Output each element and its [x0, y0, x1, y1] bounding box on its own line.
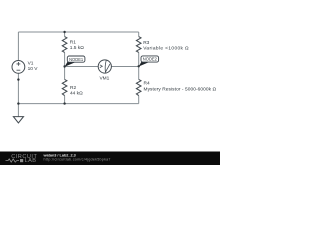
junction R1 top rail: [63, 31, 65, 33]
voltmeter VM1: [98, 60, 111, 73]
svg-text:V1: V1: [28, 60, 34, 66]
wire middle branch R1 top stub: [64, 32, 66, 37]
svg-text:R1: R1: [70, 39, 76, 45]
svg-text:Variable <1000k Ω: Variable <1000k Ω: [143, 46, 189, 52]
svg-text:44 kΩ: 44 kΩ: [70, 91, 83, 97]
svg-text:NODE2: NODE2: [143, 57, 158, 62]
junction R2 bottom rail: [63, 102, 65, 104]
svg-text:Mystery Resistor - 5000-6000k: Mystery Resistor - 5000-6000k Ω: [144, 86, 217, 92]
wire top rail from V1 branch to R3 branch: [18, 31, 138, 33]
resistor R3: [136, 37, 141, 53]
wire middle branch R2 bottom stub: [64, 96, 66, 104]
resistor R4: [136, 79, 141, 95]
resistor R1: [62, 37, 67, 53]
wire left branch lower (V1 - terminal to ground tap): [17, 73, 19, 116]
svg-text:VM1: VM1: [99, 76, 109, 82]
node NODE2 callout: [139, 56, 159, 67]
svg-text:R4: R4: [144, 81, 150, 87]
svg-text:http://circuitlab.com/c/4jgdek: http://circuitlab.com/c/4jgdek5bpka7: [44, 157, 111, 161]
junction V1 bottom terminal: [17, 78, 19, 80]
node A junction NODE1 tap: [63, 65, 65, 67]
wire VM1 right terminal to NODE2: [111, 66, 138, 68]
svg-text:1.5 kΩ: 1.5 kΩ: [70, 45, 84, 51]
wire right branch R3 top stub: [138, 32, 140, 37]
CircuitLab logo: [6, 154, 38, 164]
wire middle branch between R1 and R2 through NODE1: [64, 52, 66, 79]
svg-text:R2: R2: [70, 85, 76, 91]
voltage source V1: [12, 61, 25, 74]
ground: [13, 117, 23, 123]
footer bar: [0, 152, 220, 166]
wire NODE1 to VM1 left terminal: [65, 66, 99, 68]
resistor R2: [62, 79, 67, 95]
wire right branch between R3 and R4 through NODE2: [138, 52, 140, 79]
node B junction NODE2 tap: [138, 65, 140, 67]
wire left branch upper (top rail to V1 + terminal): [17, 32, 19, 61]
junction left branch bottom rail: [17, 102, 19, 104]
wire bottom rail from left branch to R4 branch: [18, 103, 138, 105]
wire right branch R4 bottom stub: [138, 96, 140, 104]
svg-text:R3: R3: [143, 40, 149, 46]
svg-text:NODE1: NODE1: [69, 57, 84, 62]
svg-text:10 V: 10 V: [28, 66, 39, 72]
svg-text:LAB: LAB: [25, 158, 37, 164]
node NODE1 callout: [65, 56, 85, 67]
